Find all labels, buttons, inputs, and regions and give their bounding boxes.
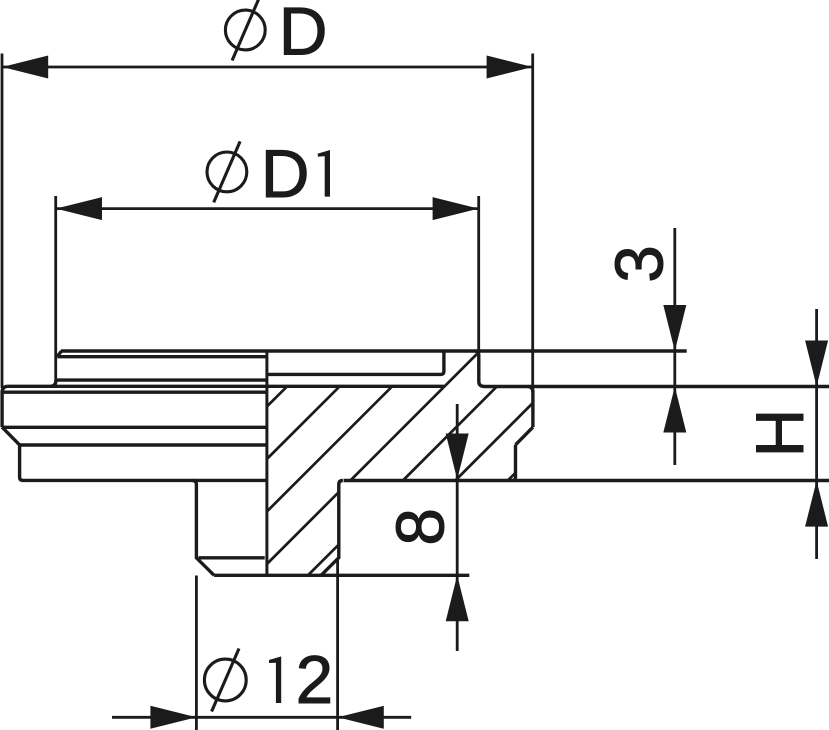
svg-text:D: D [261, 137, 310, 212]
svg-text:D: D [279, 0, 328, 70]
svg-text:8: 8 [383, 508, 458, 546]
svg-text:2: 2 [296, 643, 334, 718]
svg-text:3: 3 [602, 245, 677, 283]
svg-text:H: H [743, 409, 818, 458]
